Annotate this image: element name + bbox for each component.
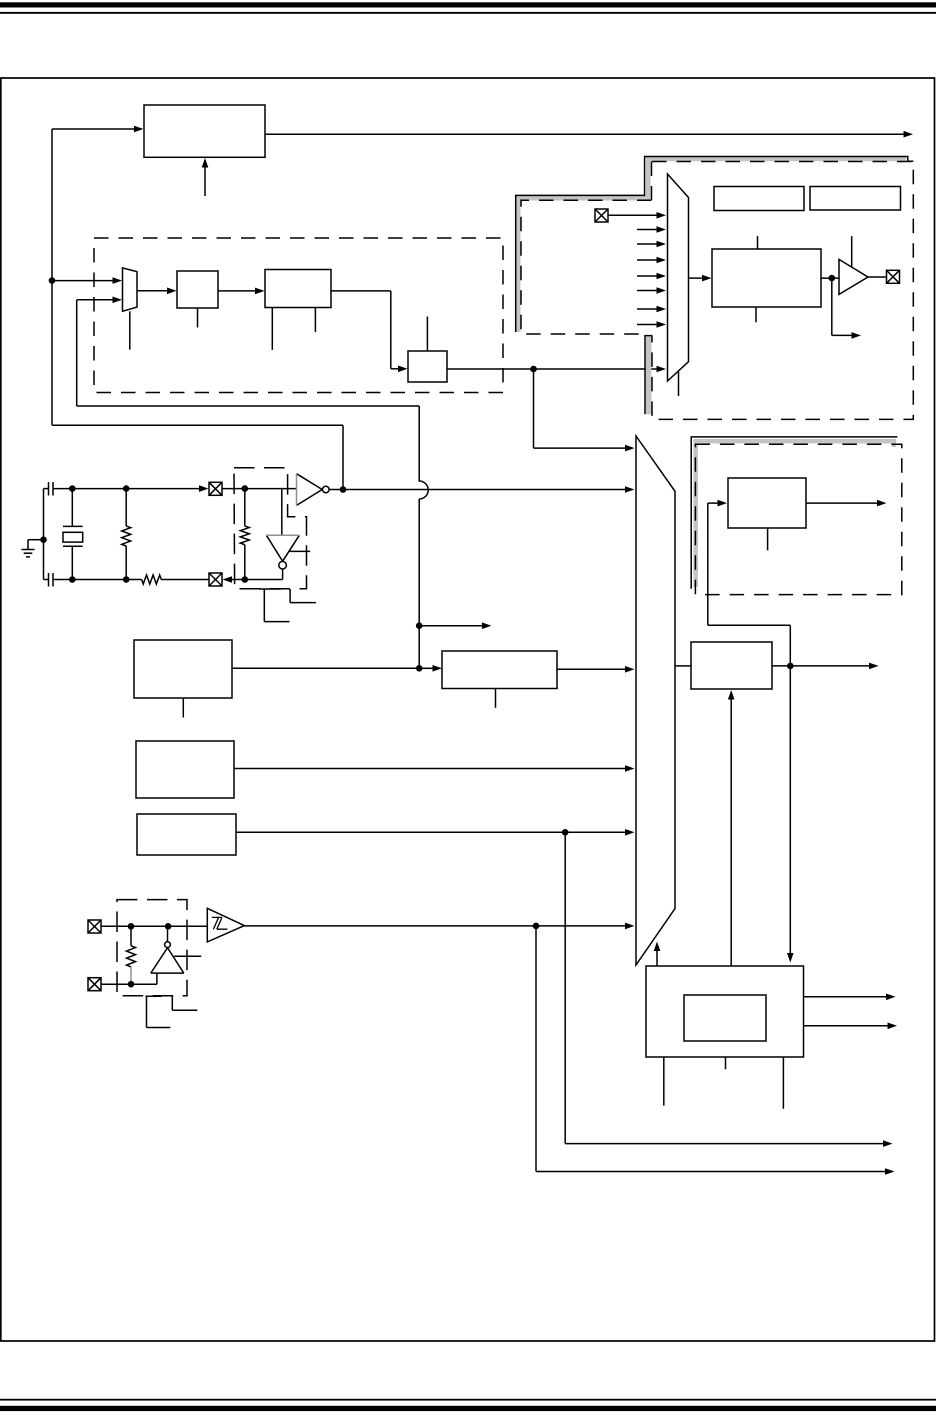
wire U4 input from OSC1 bbox=[281, 490, 283, 536]
wire L3 output to mux M4 bbox=[234, 765, 635, 772]
header rule thick bbox=[0, 2, 936, 7]
arrow CPU output 2 bbox=[804, 1023, 898, 1030]
arrow CPU output 1 bbox=[804, 994, 896, 1001]
box B3 (postscaler small) bbox=[408, 351, 447, 382]
arrow B1 to B2 bbox=[218, 288, 265, 295]
register box RA bbox=[714, 187, 804, 211]
dashed box: secondary oscillator bbox=[695, 444, 901, 594]
resistor Rt bbox=[127, 926, 136, 984]
box B3 top stub bbox=[426, 317, 428, 352]
arrow mux M3 to box C1 bbox=[689, 275, 712, 282]
gray highlight ribbon upper bbox=[518, 159, 906, 332]
inverter U4 (feedback, down) bbox=[266, 535, 299, 561]
branch wire down-right arrow bbox=[832, 278, 861, 339]
pin T1OSO bbox=[88, 978, 101, 991]
arrow input 5 to mux M3 bbox=[637, 273, 666, 280]
wire PS output arrow bbox=[772, 663, 879, 670]
wire branch down to bottom arrow 1 bbox=[565, 832, 892, 1147]
dashed box: T1 osc bbox=[117, 900, 187, 996]
inverter U4 bubble bbox=[279, 561, 287, 569]
box PS (postscaler) bbox=[691, 642, 772, 689]
gray ribbon outer black edge bbox=[516, 157, 914, 333]
inverter U5 (T1 feedback, up) bbox=[151, 948, 184, 973]
inverter U5 bubble bbox=[165, 942, 171, 948]
box L1 (LFINTOSC) bbox=[134, 640, 232, 698]
crystal Y1 bbox=[63, 489, 83, 580]
node: Rext top bbox=[123, 485, 130, 492]
wire U5 output up bbox=[167, 926, 169, 941]
ground bbox=[22, 540, 44, 557]
wire L2 output to mux M4 bbox=[557, 666, 635, 673]
mux M4 (system clock mux) bbox=[636, 436, 675, 965]
wire B3 output to mux M3 bbox=[447, 366, 666, 373]
step mark 2 below T1 box bbox=[172, 996, 197, 1010]
long output wire from U1 to right edge bbox=[265, 131, 913, 138]
box L1 bottom stub bbox=[182, 698, 184, 718]
resistor Rs and OSC2 bottom wire bbox=[53, 575, 209, 584]
top box U1 (clock control) bbox=[144, 105, 265, 157]
mux M3 select stub bbox=[678, 372, 680, 397]
inverter U3 (main osc) bbox=[297, 474, 323, 506]
wire B2 to B3 bbox=[331, 291, 408, 372]
wire into mux M1 input 2 bbox=[77, 297, 122, 407]
oscillator wire OSC to mux M4 bbox=[329, 486, 634, 493]
CPU bottom stub 1 bbox=[663, 1057, 665, 1106]
wire buffer to pin P2 bbox=[868, 276, 887, 278]
U5 enable tick bbox=[174, 955, 201, 957]
wire branch down to mux M4 bbox=[534, 369, 635, 451]
arrow input 3 to mux M3 bbox=[637, 241, 666, 248]
node: junction on L4 wire bbox=[562, 829, 569, 836]
box C1 bottom stub bbox=[755, 307, 757, 322]
wire OSC2 internal with arrow bbox=[223, 576, 283, 583]
arrow input 8 to mux M3 bbox=[637, 321, 666, 328]
box L4 (HFINTOSC) bbox=[137, 814, 236, 855]
box B2 (oscillator) bbox=[265, 270, 331, 308]
wire OSC1 internal bbox=[222, 488, 297, 490]
wire OSC1 top bbox=[53, 485, 209, 492]
capacitor C1 bbox=[44, 482, 54, 496]
wire U6 output to mux M4 bbox=[244, 923, 634, 930]
wire left rail bbox=[43, 489, 45, 580]
buffer U2 (clock out) bbox=[839, 259, 868, 294]
arrow P1 to mux M3 bbox=[608, 212, 666, 219]
step mark 1 below OSC box bbox=[259, 589, 289, 622]
mux M4 select arrow from below bbox=[654, 942, 661, 967]
wire U4 output down bbox=[282, 569, 284, 580]
node: Rf bottom bbox=[242, 576, 249, 583]
box C1 top stub bbox=[757, 236, 759, 249]
arrow input 2 to mux M3 bbox=[637, 226, 666, 233]
dashed box: OSC drive bbox=[234, 468, 307, 589]
wire L4 output to mux M4 bbox=[236, 829, 635, 836]
register box RB bbox=[810, 187, 901, 211]
buffer U2 enable stub bbox=[851, 236, 853, 267]
wire branch down to bottom arrow 2 bbox=[536, 926, 895, 1175]
arrow S1 output bbox=[806, 500, 887, 507]
mux M1 select stub bbox=[129, 311, 131, 349]
footer rule thin bbox=[0, 1399, 936, 1401]
wire rail left down bbox=[51, 281, 53, 426]
box L2 bottom stub bbox=[495, 689, 497, 708]
mux M3 (tall) bbox=[668, 174, 689, 381]
node: junction inverter output bbox=[340, 486, 347, 493]
box C1 (divider/control) bbox=[712, 249, 821, 307]
arrow input 4 to mux M3 bbox=[637, 257, 666, 264]
U4 enable tick bbox=[289, 550, 310, 552]
wire into top box U1 bbox=[52, 126, 144, 281]
wire from top rail to inverter output bbox=[52, 425, 343, 489]
box B1 bottom stub bbox=[197, 308, 199, 328]
box B1 (divider) bbox=[177, 271, 218, 308]
wire mux M4 to box PS bbox=[675, 665, 691, 667]
step mark 2 below OSC box bbox=[290, 589, 316, 603]
dashed box: middle sub block bbox=[521, 200, 652, 334]
dashed box: internal oscillator block bbox=[94, 238, 503, 393]
wire C1 to buffer bbox=[821, 277, 839, 279]
box S1 (secondary osc) bbox=[728, 478, 806, 528]
box CPU (divider) bbox=[646, 966, 804, 1057]
capacitor C2 bbox=[44, 573, 54, 587]
gray ribbon secondary block bbox=[696, 441, 894, 587]
CPU bottom stub 3 bbox=[782, 1057, 784, 1109]
secondary ribbon black edge bbox=[691, 437, 897, 589]
node: Rt bottom bbox=[128, 981, 135, 988]
wire into S1 bbox=[708, 500, 727, 625]
mux M1 (small) bbox=[123, 268, 138, 311]
wire into mux M1 input 1 bbox=[52, 277, 122, 284]
dashed box: clock control right block bbox=[652, 162, 914, 420]
node: junction branch arrow bbox=[416, 622, 423, 629]
wire T1 bottom bbox=[101, 973, 157, 984]
box L3 (MFINTOSC) bbox=[136, 741, 234, 798]
node: U5 output junction bbox=[165, 923, 172, 930]
box B2 bottom stub 2 bbox=[314, 308, 316, 332]
box L2 (divider) bbox=[442, 651, 557, 689]
arrow input 7 to mux M3 bbox=[637, 306, 666, 313]
pin OSC2 bbox=[209, 573, 222, 586]
feedback wire CPU to PS bottom bbox=[728, 690, 735, 966]
resistor Rext bbox=[122, 489, 131, 580]
node: Rext bottom bbox=[123, 576, 130, 583]
branch arrow (to peripheral) bbox=[419, 622, 491, 629]
arrow input 6 to mux M3 bbox=[637, 287, 666, 294]
schmitt symbol bbox=[212, 917, 228, 929]
step mark 1 below T1 box bbox=[145, 996, 170, 1027]
lower bar black edge bbox=[645, 336, 652, 415]
schmitt buffer U6 bbox=[207, 908, 244, 942]
pin OSC1 bbox=[209, 482, 222, 495]
footer rule thick bbox=[0, 1406, 936, 1411]
node: junction on B3 output bbox=[530, 366, 537, 373]
CPU bottom stub 2 bbox=[725, 1057, 727, 1069]
node: junction on PS output bbox=[787, 663, 794, 670]
node: crystal top bbox=[69, 485, 76, 492]
box B2 bottom stub 1 bbox=[271, 308, 273, 350]
box CPU inner box bbox=[684, 995, 766, 1041]
pin T1OSI bbox=[88, 920, 101, 933]
wire branch up to S1 input bbox=[708, 625, 791, 666]
box S1 bottom stub bbox=[767, 528, 769, 550]
pin P2 (CLKOUT) bbox=[887, 270, 900, 283]
arrow into U1 bottom (select) bbox=[202, 158, 209, 196]
node: Rf top bbox=[242, 485, 249, 492]
wire branch down to box CPU bbox=[787, 666, 794, 963]
header rule thin bbox=[0, 12, 936, 14]
resistor Rf bbox=[240, 489, 249, 580]
pin P1 (config input) bbox=[595, 209, 608, 222]
node: junction on U6 wire bbox=[533, 923, 540, 930]
node: junction at L2 input bbox=[416, 665, 423, 672]
gray highlight ribbon lower bar bbox=[646, 337, 652, 415]
inverter U3 bubble bbox=[323, 486, 330, 493]
node: Rt top bbox=[128, 923, 135, 930]
node: junction on left rail bbox=[49, 277, 56, 284]
wire T1 top bbox=[101, 925, 207, 927]
wire L1 output to box L2 bbox=[232, 665, 442, 672]
arrow mux M1 to box B1 bbox=[137, 288, 177, 295]
node: junction after C1 bbox=[829, 275, 836, 282]
node: ground junction bbox=[40, 536, 47, 543]
node: crystal bottom bbox=[69, 576, 76, 583]
wire net from top (hop over OSC wire) bbox=[77, 406, 429, 668]
